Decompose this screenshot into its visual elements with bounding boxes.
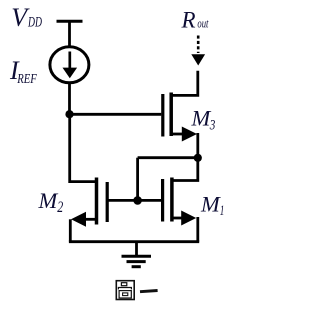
transistor M2 source lead with arrow (71, 212, 97, 227)
transistor M1 source lead with arrow (172, 211, 196, 226)
svg-text:M: M (38, 188, 59, 213)
node B junction dot (194, 154, 202, 162)
Rout dashed probe arrow (191, 36, 205, 66)
ground rail wire (69, 240, 199, 243)
transistor M3 channel bar (169, 93, 173, 137)
wire M3 source to node B (196, 133, 199, 158)
transistor M2 channel bar (95, 178, 99, 225)
svg-text:M: M (200, 191, 221, 216)
label IREF (9, 56, 37, 87)
wire gate riser down to node C (136, 158, 139, 201)
transistor M1 channel bar (170, 178, 174, 222)
svg-text:R: R (181, 7, 196, 32)
label M3 (191, 106, 216, 134)
label VDD (11, 3, 42, 32)
svg-text:1: 1 (220, 203, 225, 219)
svg-text:3: 3 (209, 118, 215, 134)
node A junction dot (65, 110, 73, 118)
caption figure-one glyph ONE (140, 291, 158, 292)
wire node A to M3 gate (70, 113, 162, 116)
caption figure-one glyph TU (116, 281, 134, 300)
wire Rout arrow to M3 drain (171, 71, 198, 96)
transistor M3 gate bar (161, 94, 164, 137)
svg-text:2: 2 (57, 199, 63, 216)
wire VDD rail to current source (68, 21, 71, 47)
wire node A down to M2 drain (70, 114, 95, 181)
VDD power rail bar (57, 20, 83, 23)
label Rout (181, 7, 209, 32)
transistor M2 gate bar (106, 182, 109, 222)
current source arrow (63, 52, 78, 79)
transistor M3 source lead with arrow (171, 127, 197, 142)
label M1 (200, 191, 224, 219)
svg-text:DD: DD (27, 15, 42, 31)
wire common gate M2 to M1 (109, 199, 162, 202)
wire current source to node A (68, 82, 71, 115)
ground symbol (122, 242, 152, 267)
wire M2 source to ground rail (69, 219, 72, 241)
wire M1 source to ground rail (196, 217, 199, 242)
transistor M1 gate bar (161, 179, 164, 222)
current source IREF circle (50, 47, 89, 83)
wire node B to gate riser (138, 156, 198, 159)
label M2 (38, 188, 64, 216)
wire node B to M1 drain (172, 158, 198, 181)
svg-text:out: out (197, 17, 208, 31)
svg-text:REF: REF (16, 72, 37, 87)
svg-text:M: M (191, 106, 212, 131)
node C junction dot (133, 196, 142, 205)
